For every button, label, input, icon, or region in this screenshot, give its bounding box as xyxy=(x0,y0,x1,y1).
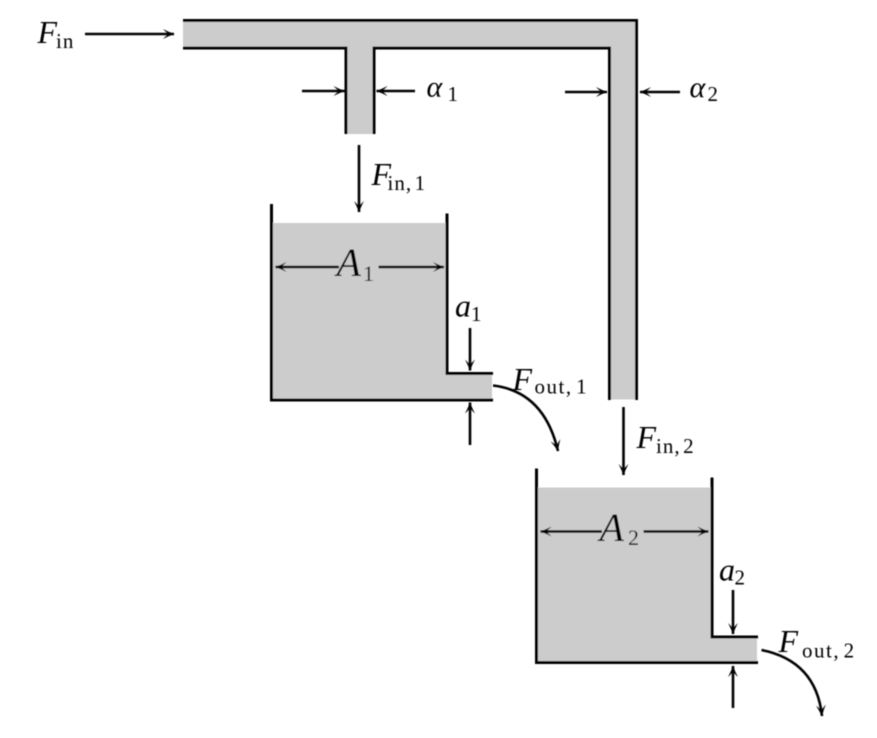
svg-text:in: in xyxy=(56,29,74,53)
svg-text:a: a xyxy=(719,552,735,588)
svg-text:α: α xyxy=(690,71,707,104)
svg-text:F: F xyxy=(778,623,799,659)
svg-text:A: A xyxy=(597,505,625,550)
svg-text:1: 1 xyxy=(363,261,374,286)
svg-text:2: 2 xyxy=(735,566,746,590)
svg-text:out,2: out,2 xyxy=(802,639,856,663)
svg-text:1: 1 xyxy=(471,302,482,326)
svg-text:F: F xyxy=(512,361,533,397)
svg-text:in,2: in,2 xyxy=(656,434,695,458)
svg-text:1: 1 xyxy=(448,82,459,106)
svg-text:F: F xyxy=(636,419,657,455)
svg-text:α: α xyxy=(427,71,444,104)
svg-text:F: F xyxy=(37,14,58,50)
svg-text:in,1: in,1 xyxy=(388,171,427,195)
svg-text:out,1: out,1 xyxy=(535,375,589,399)
svg-text:2: 2 xyxy=(628,525,639,550)
svg-text:a: a xyxy=(455,288,471,324)
svg-text:2: 2 xyxy=(708,82,719,106)
svg-text:A: A xyxy=(334,240,362,285)
